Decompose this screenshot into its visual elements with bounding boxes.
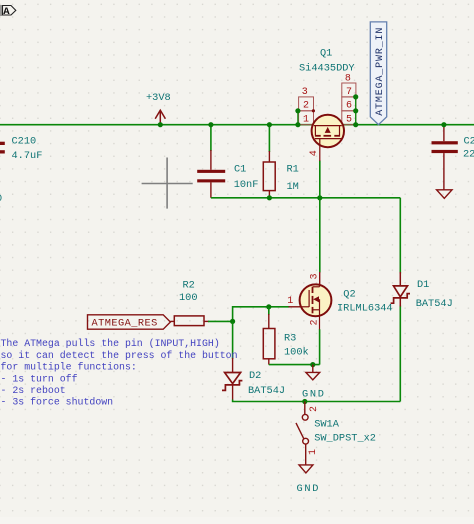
wire node up to gate row <box>233 307 290 322</box>
global label ATMEGA_PWR_IN <box>370 22 386 125</box>
svg-text:4.7uF: 4.7uF <box>12 150 43 162</box>
svg-text:C212: C212 <box>464 135 474 147</box>
svg-text:ATMEGA_PWR_IN: ATMEGA_PWR_IN <box>375 27 386 116</box>
svg-text:BAT54J: BAT54J <box>248 385 285 397</box>
svg-text:GND: GND <box>302 389 326 401</box>
svg-text:100k: 100k <box>284 347 309 359</box>
wire Q1 gate down <box>319 161 321 198</box>
svg-text:1: 1 <box>308 449 319 455</box>
svg-text:+3V8: +3V8 <box>146 92 171 104</box>
svg-text:0: 0 <box>0 193 2 205</box>
junction R1 rail <box>267 122 272 127</box>
resistor R1 <box>263 151 299 198</box>
power symbol +3V8 <box>146 92 171 125</box>
svg-text:1: 1 <box>303 114 309 125</box>
wire gate pin <box>289 306 301 308</box>
svg-text:6: 6 <box>346 101 352 112</box>
svg-text:GND: GND <box>297 483 321 495</box>
junction R3 top <box>266 304 271 309</box>
svg-text:IRLML6344: IRLML6344 <box>337 303 393 315</box>
svg-text:- 3s force shutdown: - 3s force shutdown <box>1 397 114 408</box>
svg-text:SW_DPST_x2: SW_DPST_x2 <box>314 433 376 445</box>
svg-text:BAT54J: BAT54J <box>416 298 453 310</box>
ground SW1A <box>297 465 321 495</box>
svg-text:22uF: 22uF <box>463 148 474 160</box>
wire R2 to node <box>208 320 233 322</box>
svg-text:- 1s turn off: - 1s turn off <box>1 373 78 384</box>
text note ATMega explanation <box>1 338 238 408</box>
svg-text:- 2s reboot: - 2s reboot <box>1 385 66 396</box>
svg-text:R2: R2 <box>183 280 195 292</box>
junction +3V8 <box>158 122 163 127</box>
wire R3 source bus <box>269 364 320 366</box>
svg-text:Q2: Q2 <box>343 289 355 301</box>
svg-text:C210: C210 <box>12 136 37 148</box>
svg-text:C1: C1 <box>234 163 246 175</box>
wire +3V8 rail <box>0 124 474 126</box>
junction C2 rail <box>441 122 446 127</box>
svg-text:so it can detect the press of: so it can detect the press of the button <box>1 350 238 361</box>
resistor R3 <box>263 307 308 365</box>
junction C1 rail <box>208 122 213 127</box>
svg-text:10nF: 10nF <box>234 179 259 191</box>
wire node down to D2 <box>232 321 234 358</box>
diode D2 BAT54J <box>222 358 285 400</box>
junction Q1 pin1/2 stack <box>295 108 300 113</box>
svg-text:2: 2 <box>303 101 309 112</box>
cursor crosshair <box>142 158 193 209</box>
svg-text:Q1: Q1 <box>320 47 332 59</box>
ground below C2 <box>437 190 452 199</box>
switch SW1A SW_DPST_x2 <box>296 402 376 465</box>
svg-text:ATMEGA_RES: ATMEGA_RES <box>92 317 158 329</box>
transistor Q2 IRLML6344 <box>287 273 392 329</box>
junction gate node <box>317 195 322 200</box>
hierarchical label ATMEGA_RES <box>88 315 171 330</box>
capacitor C1 <box>197 150 258 198</box>
svg-text:for multiple functions:: for multiple functions: <box>1 362 137 373</box>
wire R1 branch <box>268 125 270 152</box>
wire node to D1 <box>399 198 401 274</box>
svg-text:SW1A: SW1A <box>314 419 340 431</box>
svg-text:3: 3 <box>302 87 308 98</box>
svg-text:1M: 1M <box>287 181 299 193</box>
transistor Q1 Si4435DDY <box>298 47 356 161</box>
wire C1/R1 bottom bus y=198 <box>211 197 400 199</box>
wire Q2 source down <box>319 329 321 364</box>
svg-text:4: 4 <box>309 150 320 156</box>
svg-text:5: 5 <box>346 114 352 125</box>
junction GND tap <box>310 362 315 367</box>
wire C1 branch <box>210 125 212 151</box>
wire bottom gnd bus <box>233 400 401 402</box>
diode D1 BAT54J <box>391 272 453 310</box>
svg-text:1: 1 <box>287 296 293 307</box>
junction R2 node <box>230 319 235 324</box>
junction SW1A tap <box>302 399 307 404</box>
svg-text:R3: R3 <box>284 333 296 345</box>
svg-text:The ATMega pulls the pin (INPU: The ATMega pulls the pin (INPUT,HIGH) <box>1 338 220 349</box>
svg-text:2: 2 <box>309 319 320 325</box>
wire node to Q2 drain <box>319 198 321 273</box>
svg-text:7: 7 <box>346 87 352 98</box>
svg-text:D1: D1 <box>417 279 429 291</box>
ground Q2 source <box>302 365 326 401</box>
svg-text:A: A <box>3 6 10 18</box>
svg-text:Si4435DDY: Si4435DDY <box>299 63 355 75</box>
resistor R2 <box>170 280 209 326</box>
svg-text:3: 3 <box>309 273 320 279</box>
capacitor C2 <box>432 125 474 190</box>
svg-text:8: 8 <box>345 73 351 84</box>
svg-text:D2: D2 <box>249 370 261 382</box>
junction R1 bottom <box>267 195 272 200</box>
svg-text:100: 100 <box>179 292 198 304</box>
svg-text:2: 2 <box>309 406 320 412</box>
svg-text:R1: R1 <box>287 164 299 176</box>
capacitor C210 <box>0 136 42 162</box>
junction Q1 pin5/6/7 stack <box>353 94 358 99</box>
